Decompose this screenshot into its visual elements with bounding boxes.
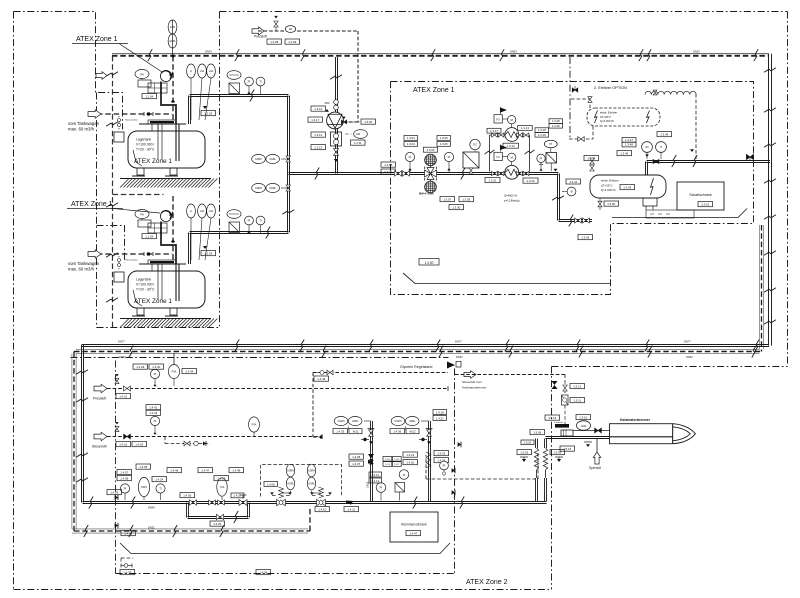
outer dash-dot bottom edge (14, 589, 552, 591)
black bowtie at trunk (746, 154, 753, 160)
svg-text:1.3.07: 1.3.07 (443, 197, 451, 201)
lower zone dash-dot right x454 (454, 369, 456, 574)
siphon circle (160, 70, 172, 81)
label 1.4.01 (116, 442, 131, 447)
HX2 valves (492, 171, 529, 175)
label 1.4.47 (406, 531, 421, 536)
label 1.3.33 (523, 178, 538, 183)
zone border break (106, 253, 118, 257)
label 1.3.03 (404, 136, 418, 141)
svg-text:LI: LI (190, 70, 192, 73)
spring coil mid (426, 452, 431, 476)
erhitzer option riser top (571, 97, 592, 108)
svg-text:Glyzerin Regelstand: Glyzerin Regelstand (400, 365, 432, 369)
svg-text:MW=0–3mm: MW=0–3mm (419, 193, 434, 196)
label 1.4.35 (333, 429, 348, 434)
svg-text:1.2.09: 1.2.09 (288, 40, 296, 44)
label 1.3.13 (518, 126, 533, 131)
sperrluft arrow (589, 452, 601, 470)
instrument PI bottom2 (150, 416, 159, 434)
svg-text:Lagertank: Lagertank (136, 138, 151, 142)
erhitzer option vessel (587, 108, 660, 126)
svg-text:Sperrluft: Sperrluft (589, 466, 601, 470)
svg-text:1.5.11: 1.5.11 (573, 398, 581, 402)
svg-text:1.4.44: 1.4.44 (149, 411, 157, 415)
black valve zone x454 (458, 442, 461, 447)
svg-text:DN77: DN77 (455, 340, 462, 344)
svg-text:PI: PI (403, 473, 406, 477)
pipe break mark bottom (576, 340, 580, 352)
black fitting main (346, 501, 352, 505)
svg-text:1.4.36: 1.4.36 (393, 429, 401, 433)
pipe suction manifold vertical (288, 96, 290, 233)
erhitzer option lightning (595, 111, 650, 124)
relief square (229, 83, 240, 95)
fitting bottom left (121, 564, 132, 568)
svg-text:W11: W11 (353, 429, 359, 433)
svg-text:1.3.09: 1.3.09 (384, 170, 392, 174)
svg-text:Pressluft: Pressluft (254, 35, 267, 39)
svg-text:PI: PI (154, 372, 157, 376)
label W1 (349, 429, 362, 434)
svg-text:1.3.46: 1.3.46 (620, 151, 628, 155)
valve 1405 (189, 500, 196, 505)
black valve on dashdot a (115, 495, 118, 500)
svg-text:Ah: Ah (645, 145, 649, 149)
svg-text:1.4.37: 1.4.37 (352, 462, 360, 466)
main line valves (209, 495, 247, 506)
svg-text:DN33: DN33 (510, 50, 517, 54)
outer dash-dot border top-left box (14, 12, 123, 130)
instrument PI c (537, 154, 545, 171)
svg-text:DN32: DN32 (148, 526, 155, 530)
svg-text:1.2.11: 1.2.11 (354, 141, 362, 145)
label 1.4.26 (210, 521, 225, 526)
svg-text:1.3.61: 1.3.61 (701, 202, 709, 206)
svg-text:DN77: DN77 (684, 340, 691, 344)
grounding dotted line (118, 256, 121, 271)
svg-text:PI: PI (248, 80, 251, 84)
instrument PI bottom1 (150, 369, 159, 386)
pipe break mark bottom (505, 340, 509, 352)
svg-text:GM: GM (356, 133, 360, 136)
label 1.1.03 (201, 111, 216, 116)
pressluft arrow bottom (93, 384, 107, 400)
steuerluft zum line (455, 374, 565, 376)
svg-text:1.5.03: 1.5.03 (553, 450, 561, 454)
label 1.3.21 (485, 178, 500, 183)
svg-text:PI: PI (248, 219, 251, 223)
svg-text:W12: W12 (410, 429, 416, 433)
steuerluft arrow bottom (92, 432, 107, 448)
label 1.3.00 zone tag (419, 259, 439, 266)
svg-text:1.3.15: 1.3.15 (314, 145, 322, 149)
Schaltschrank box (677, 182, 724, 210)
vom Tankwagen line (97, 253, 172, 255)
label W2 (406, 429, 419, 434)
svg-text:1.4.47: 1.4.47 (201, 468, 209, 472)
vent arrow upper (96, 72, 107, 80)
label 1.4.05b (136, 464, 151, 469)
pipe tank2 header (190, 232, 289, 234)
erhitzer lightning (651, 178, 654, 195)
igniter hatch (555, 424, 569, 428)
gear trap (331, 132, 342, 146)
svg-text:1.4.19: 1.4.19 (406, 453, 414, 457)
pipe break mark bottom line (413, 497, 417, 509)
pipe break mark right vertical (764, 288, 776, 292)
dashed stub bottom (121, 558, 133, 563)
instrument junction box (138, 219, 151, 227)
pipe break mark right vertical (764, 179, 776, 183)
vom Tankwagen line (97, 113, 172, 115)
riser2 (426, 421, 433, 502)
svg-text:1.3.33: 1.3.33 (526, 179, 534, 183)
instrument PI mid (376, 483, 386, 501)
svg-text:1.4.35: 1.4.35 (336, 429, 344, 433)
optional area dashed divider (569, 57, 571, 139)
label 1.5.15 (545, 415, 560, 420)
suction to erhitzer (559, 220, 593, 222)
dashed box mid (426, 452, 538, 479)
flex hose 1 (534, 439, 538, 479)
svg-text:LSA: LSA (209, 70, 214, 73)
pipe break mark right vertical (764, 143, 776, 147)
filling pipe (161, 222, 176, 265)
svg-text:GSRH: GSRH (287, 470, 294, 473)
pipe break mark top (754, 49, 758, 61)
igniter box (561, 430, 573, 436)
ignition line (573, 428, 609, 433)
label D432 c (686, 355, 693, 359)
svg-text:1.5.10: 1.5.10 (579, 415, 587, 419)
heater trace drop (690, 94, 696, 159)
svg-text:Kalzinatorbrenner: Kalzinatorbrenner (462, 386, 486, 390)
label 1.5.03 (550, 450, 565, 455)
svg-text:DN33: DN33 (693, 50, 700, 54)
pressluft upper branch (313, 372, 448, 374)
label 1.3.04 (404, 142, 418, 147)
svg-text:PSA: PSA (172, 371, 177, 374)
pressluft valve (115, 374, 130, 391)
svg-text:ATEX Zone 2: ATEX Zone 2 (466, 579, 508, 586)
outer dash-dot border right (787, 12, 789, 367)
main pipe bottom horizontal (82, 345, 769, 347)
svg-text:GSRH: GSRH (255, 158, 262, 161)
flag1 (500, 107, 507, 114)
svg-text:PSA: PSA (252, 424, 257, 427)
zone2 dashed right edge (551, 367, 553, 590)
svg-text:TI: TI (159, 487, 162, 491)
black triangle on line (554, 169, 558, 172)
label 1.3.48 (622, 142, 636, 147)
pipe break mark bottom (235, 340, 239, 352)
svg-text:LSA: LSA (200, 70, 205, 73)
svg-text:LSA: LSA (209, 210, 214, 213)
zone1 right edge dash-dot (0, 0, 1, 1)
svg-text:1.3.41: 1.3.41 (569, 180, 577, 184)
suction elbow down (558, 174, 560, 221)
svg-text:GSRH: GSRH (338, 420, 345, 423)
svg-text:1.3.21: 1.3.21 (488, 178, 496, 182)
label 1.3.05a (437, 136, 451, 141)
level instruments LI LSA LSA (187, 64, 216, 120)
instrument ovals GSRH GSRL lower (252, 183, 291, 192)
label 1.3.17 (487, 128, 501, 133)
filter upper (425, 154, 437, 166)
label D432 (119, 355, 126, 359)
outer dash-dot border left edge (13, 12, 15, 590)
lower zone dash-dot top (71, 357, 449, 359)
label 1.3.06 (437, 142, 451, 147)
label 1.2.09 (285, 39, 300, 44)
callout ATEX Zone 1 upper (72, 36, 162, 72)
text Rotationsduese (125, 119, 139, 122)
pipe break mark top (639, 49, 643, 61)
label 1.3.09 (381, 169, 396, 174)
label 1.3.10 (311, 106, 326, 111)
svg-text:1.1.03: 1.1.03 (204, 251, 212, 255)
instrument Tx (656, 142, 667, 159)
label 1.3.12hx (503, 143, 519, 148)
voval pdis (138, 477, 149, 500)
pipe suction line (289, 173, 559, 175)
steuerluft valve (115, 422, 130, 439)
tank zone dash-dot bottom (97, 327, 220, 329)
label 1.3.50 (604, 201, 619, 206)
steuerluft branch (165, 437, 210, 444)
svg-text:1.3.50: 1.3.50 (607, 202, 615, 206)
svg-text:1.4.17: 1.4.17 (394, 464, 399, 466)
pipe break mark bottom (436, 340, 440, 352)
label grid 2x2 (383, 457, 401, 467)
svg-text:vom Tankwagen: vom Tankwagen (68, 261, 100, 266)
valve cluster v1 (563, 385, 568, 391)
break process line (461, 168, 465, 180)
text Glyzerin Regelstand (400, 365, 432, 369)
svg-text:GSRL: GSRL (269, 158, 276, 161)
ovals group2 (391, 416, 429, 430)
svg-text:GSRL: GSRL (352, 420, 359, 423)
label 1.3.05 (459, 197, 474, 202)
svg-text:DN32: DN32 (686, 355, 693, 359)
svg-text:ATEX Zone 1: ATEX Zone 1 (134, 298, 172, 305)
ground hatching (120, 319, 217, 328)
pipe break mark top (301, 49, 305, 61)
vom Tankwagen arrow (88, 110, 101, 119)
label 1.1.03 (201, 251, 216, 256)
label 1.3.61 (698, 202, 713, 207)
filling pipe (161, 82, 176, 125)
pump P1 (327, 112, 344, 129)
label 1.4.30 (149, 364, 164, 369)
vom Tankwagen arrow (88, 250, 101, 259)
voval 1434 (168, 365, 179, 387)
svg-text:1.4.46: 1.4.46 (170, 468, 178, 472)
svg-text:ΔT=25°C: ΔT=25°C (600, 115, 611, 119)
label 1.4.09 (121, 531, 136, 536)
instrument ovals GSRH GSRL upper (252, 154, 291, 163)
svg-text:PC: PC (473, 143, 477, 147)
label filter box (424, 147, 438, 152)
steuerluft zum arrow (464, 371, 476, 379)
pipe tank1 riser (189, 96, 191, 125)
label 1.4.39 (120, 570, 135, 575)
pipe break mark top (500, 49, 504, 61)
instrument PC (470, 139, 480, 152)
svg-text:1.4.13: 1.4.13 (371, 479, 379, 483)
fitting 1445 (317, 370, 333, 375)
svg-text:1.3.06: 1.3.06 (440, 142, 448, 146)
label 1.3.42 (578, 235, 593, 240)
svg-text:1.4.38: 1.4.38 (259, 570, 267, 574)
hose valve 1 (520, 457, 528, 462)
label 1.3.07 (440, 197, 455, 202)
lower zone dash-dot bottom (116, 573, 456, 575)
pressluft drop line (341, 31, 358, 124)
pipe break mark bottom dashed (509, 346, 513, 358)
svg-text:1.5.01: 1.5.01 (523, 440, 531, 444)
svg-text:max. 60 m3/h: max. 60 m3/h (68, 127, 95, 132)
main pipe left dashed vertical (72, 352, 76, 532)
label 1.3.00 (345, 119, 376, 124)
hose coupling (144, 112, 153, 116)
pipe break mark left vertical (76, 453, 88, 457)
svg-text:elektr. Erhitzer: elektr. Erhitzer (601, 179, 619, 183)
label D433 c (693, 50, 700, 54)
svg-text:PT: PT (549, 143, 553, 146)
pipe break mark top (647, 49, 651, 61)
pipe break mark bottom line (89, 497, 93, 509)
svg-text:1.4.28: 1.4.28 (352, 455, 360, 459)
svg-text:Lagertank: Lagertank (136, 278, 151, 282)
pipe break mark bottom (369, 340, 373, 352)
svg-text:1.1.04: 1.1.04 (145, 94, 153, 98)
svg-text:Q=4.000 l/h: Q=4.000 l/h (601, 188, 616, 192)
pressluft top line (258, 30, 358, 32)
svg-text:TI: TI (259, 80, 262, 84)
label 1.1.04 (142, 94, 157, 99)
label 1.4.37 (349, 461, 364, 466)
grounding box (114, 272, 124, 282)
pressluft drop x313 (313, 373, 323, 439)
svg-text:1.3.10: 1.3.10 (314, 107, 322, 111)
svg-text:V=100.000 l: V=100.000 l (136, 283, 154, 287)
fill valve black (171, 99, 175, 102)
label 1.3.30 (449, 205, 464, 210)
burner Kalzinatorbrenner (610, 424, 696, 444)
main pipe right vertical (769, 54, 772, 346)
tank dip tubes (133, 124, 179, 166)
valves on lower run (575, 218, 590, 223)
svg-text:1.4.20: 1.4.20 (406, 460, 414, 464)
label 1.4.28 (349, 454, 364, 459)
svg-text:Rotationsdüse: Rotationsdüse (125, 119, 139, 122)
svg-text:GSRH: GSRH (395, 420, 402, 423)
svg-text:1.3.17: 1.3.17 (490, 129, 498, 133)
outer dash-dot border bottom-right segment (552, 366, 788, 368)
svg-text:T=20 - 30°C: T=20 - 30°C (136, 288, 155, 292)
label pair a (535, 128, 549, 137)
outer dash-dot border top (220, 11, 788, 13)
svg-text:V=100.000 l: V=100.000 l (136, 143, 154, 147)
regulator box (562, 395, 569, 405)
Klemmenschrank box (390, 512, 438, 542)
svg-text:1.4.12: 1.4.12 (371, 473, 379, 477)
voval extra (217, 478, 227, 500)
voval psah (249, 417, 260, 437)
svg-text:1.4.30: 1.4.30 (152, 365, 160, 369)
svg-text:Pressluft: Pressluft (93, 397, 106, 401)
pipe break mark right vertical (764, 108, 776, 112)
pipe break mark bottom line (131, 497, 135, 509)
svg-text:1.4.42: 1.4.42 (149, 405, 157, 409)
expansion vessel (227, 210, 241, 219)
riser1 (367, 421, 375, 502)
black valve mid2 (452, 490, 455, 495)
svg-text:1.3.05: 1.3.05 (440, 136, 448, 140)
motor M1 (508, 116, 516, 128)
label 1.4.31 (116, 394, 131, 399)
label 1.4.27 (231, 493, 244, 498)
svg-text:Steuerluft: Steuerluft (92, 445, 107, 449)
svg-text:PH: PH (140, 73, 144, 77)
instrument B circle (562, 187, 576, 196)
svg-text:FU: FU (496, 118, 500, 121)
pipe break mark bottom dashed (579, 346, 583, 358)
expansion vessel (227, 71, 241, 80)
svg-text:PI: PI (409, 155, 412, 159)
fill line dashed (172, 56, 174, 120)
bypass pipe (187, 503, 250, 519)
svg-text:1.4.09: 1.4.09 (124, 531, 132, 535)
zone1 skid frame left (403, 273, 610, 284)
svg-text:1.3.12: 1.3.12 (314, 133, 322, 137)
tank top flange (139, 260, 186, 271)
supply pipe to trunk (647, 161, 771, 163)
svg-text:TSA: TSA (220, 486, 225, 489)
instrument PH oval (135, 69, 149, 78)
text Rotationsduese (125, 259, 139, 262)
label 1.5.08 (530, 430, 545, 435)
black hourglass (552, 381, 558, 389)
svg-text:FU: FU (496, 156, 500, 159)
svg-text:ATEX Zone 1: ATEX Zone 1 (413, 87, 455, 94)
svg-text:1.4.45: 1.4.45 (317, 377, 325, 381)
PT diamond seal (546, 153, 557, 172)
svg-text:1.3.18: 1.3.18 (538, 128, 546, 132)
svg-text:1.5.02: 1.5.02 (520, 450, 528, 454)
black valve on dashdot b (115, 523, 118, 528)
pressluft top arrow (252, 27, 267, 39)
svg-text:1.4.07: 1.4.07 (120, 470, 128, 474)
text mesh (419, 193, 434, 196)
label 1.4.47b (198, 468, 213, 473)
svg-text:GSRH: GSRH (308, 470, 315, 473)
frame line bottom (120, 543, 450, 554)
text 2 Erhitzer OPTION (594, 86, 627, 90)
svg-text:PI: PI (154, 419, 157, 423)
svg-text:1.3.17: 1.3.17 (311, 118, 319, 122)
pipe break mark top (235, 49, 239, 61)
svg-text:elektr. Erhitzer: elektr. Erhitzer (600, 111, 617, 115)
svg-text:1.3.46: 1.3.46 (552, 124, 560, 128)
supply pipe breaks (672, 155, 697, 167)
svg-text:Steuerluft zum: Steuerluft zum (462, 380, 482, 384)
oval gma (577, 421, 591, 431)
svg-text:1.4.08: 1.4.08 (120, 476, 128, 480)
label 1.3.46 (617, 151, 632, 156)
